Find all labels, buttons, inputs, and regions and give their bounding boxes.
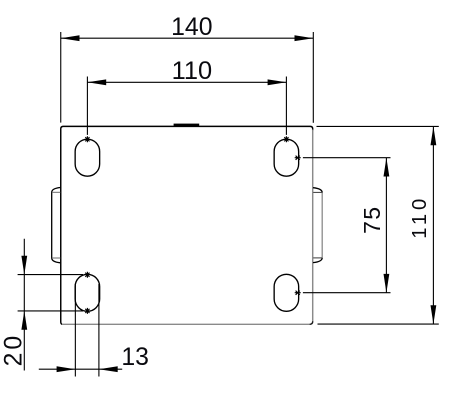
- plate bottom-right corner tick (black): [310, 321, 313, 324]
- center mark bottom-left slot bottom point: [85, 308, 89, 314]
- dimension 75: top extension line: [303, 157, 391, 159]
- center mark bottom-left slot top point: [85, 272, 89, 278]
- left flange top tangent chord: [52, 191, 60, 193]
- slot hole top-left: [75, 139, 100, 176]
- dimension 110 vertical: bottom extension line: [318, 323, 439, 325]
- svg-text:110: 110: [172, 57, 212, 85]
- right flange bottom bend arc (black): [313, 258, 322, 263]
- dimension 20: upper arrowhead pointing down: [21, 256, 27, 275]
- dimension 110 vertical: top extension line: [317, 125, 439, 127]
- dimension 140: left extension line: [60, 32, 62, 123]
- dimension 75: dimension line: [385, 158, 387, 293]
- plate right and bottom edges (tangent, gray): [62, 130, 313, 325]
- dimension 110 horizontal: left arrowhead: [87, 79, 106, 85]
- dimension 13: dimension line: [39, 368, 122, 370]
- right flange tab top bend arc (black): [313, 188, 322, 193]
- svg-text:75: 75: [359, 206, 385, 234]
- left flange bottom tangent chord: [52, 257, 60, 259]
- dimension 110 vertical: dimension line: [432, 126, 434, 324]
- svg-text:20: 20: [1, 333, 28, 367]
- dimension 13: left extension line: [74, 284, 76, 377]
- right flange outer edge (gray): [321, 193, 323, 258]
- slot hole top-right: [274, 139, 299, 176]
- slot hole bottom-left: [75, 274, 100, 311]
- dimension 110 vertical: bottom arrowhead: [431, 305, 437, 324]
- svg-text:110: 110: [409, 195, 431, 239]
- svg-text:140: 140: [171, 14, 212, 41]
- dimension 140: left arrowhead: [61, 35, 80, 41]
- dimension 20: lower arrowhead pointing up: [21, 311, 27, 330]
- dimension 13: right extension line: [98, 284, 100, 377]
- dimension 110 horizontal: right extension line: [285, 77, 287, 135]
- dimension 140: dimension line: [61, 37, 314, 39]
- center mark top-right slot right point: [295, 156, 301, 160]
- dimension 140: right extension line: [312, 32, 314, 123]
- center mark top-left slot top point: [85, 136, 89, 142]
- right flange top tangent chord: [313, 191, 322, 193]
- dimension 20: top extension line: [18, 274, 83, 276]
- center mark bottom-right slot right point: [295, 291, 301, 295]
- dimension 110 horizontal: right arrowhead: [268, 79, 287, 85]
- dimension 75: bottom arrowhead: [384, 274, 390, 293]
- dimension 20: dimension line: [23, 239, 25, 371]
- top flange bump on top edge: [174, 124, 200, 127]
- dimension 110 horizontal: left extension line: [86, 77, 88, 135]
- left flange tab outline (black): [52, 188, 61, 263]
- right flange bottom tangent chord: [313, 257, 322, 259]
- slot hole bottom-right: [274, 274, 299, 311]
- dimension 110 vertical: top arrowhead: [431, 126, 437, 145]
- dimension 140: right arrowhead: [295, 35, 314, 41]
- dimension 20: bottom extension line: [18, 310, 83, 312]
- dimension 75: bottom extension line: [303, 292, 391, 294]
- dimension 13: left arrowhead pointing right: [57, 366, 76, 372]
- plate left and top edges (visible, black): [61, 126, 313, 324]
- dimension 13: right arrowhead pointing left: [99, 366, 118, 372]
- center mark top-right slot top point: [284, 136, 288, 142]
- dimension 75: top arrowhead: [384, 158, 390, 177]
- svg-text:13: 13: [121, 344, 149, 371]
- dimension 110 horizontal: dimension line: [87, 81, 286, 83]
